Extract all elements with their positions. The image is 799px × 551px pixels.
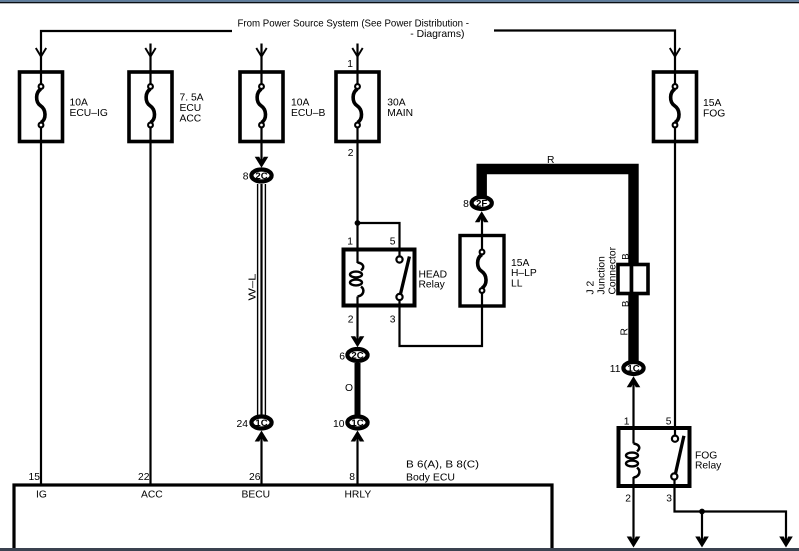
svg-text:8: 8 — [349, 472, 355, 483]
svg-text:From Power Source System (See: From Power Source System (See Power Dist… — [238, 19, 470, 30]
svg-text:Body ECU: Body ECU — [406, 473, 455, 484]
svg-text:5: 5 — [666, 416, 672, 427]
wire R thick from 2F to junction connector — [482, 169, 634, 266]
arrow out bottom branch — [695, 537, 709, 548]
label J 2 Junction Connector — [586, 246, 619, 294]
wire: 1C to body ECU pin 26 — [260, 435, 262, 487]
arrow up into 2F — [475, 211, 489, 222]
arrow up into 24-1C — [255, 431, 269, 442]
wire: F1 to body ECU pin 15 — [40, 142, 42, 487]
svg-text:1: 1 — [624, 416, 630, 427]
svg-text:10A: 10A — [291, 98, 309, 109]
fuse F2 7.5A ECU ACC — [129, 72, 172, 142]
svg-text:26: 26 — [249, 472, 261, 483]
svg-text:Connector: Connector — [608, 246, 619, 294]
wire: F3 to connector 2C — [260, 142, 262, 164]
svg-text:30A: 30A — [387, 98, 405, 109]
svg-text:J 2: J 2 — [586, 280, 597, 294]
svg-text:5: 5 — [390, 237, 396, 248]
svg-text:8: 8 — [243, 172, 249, 183]
arrowhead into fuse F4 — [352, 48, 362, 57]
connector 24 1C — [237, 417, 272, 431]
svg-text:B: B — [621, 253, 632, 259]
wire: feed arrow stem to ECU ACC fuse — [149, 44, 151, 73]
svg-text:B 6(A), B 8(C): B 6(A), B 8(C) — [406, 460, 479, 471]
svg-text:- Diagrams): - Diagrams) — [410, 29, 464, 40]
svg-text:3: 3 — [666, 494, 672, 505]
fuse F3 10A ECU-B — [240, 72, 283, 142]
svg-text:10A: 10A — [70, 98, 88, 109]
fuse F6 15A H-LP LL — [460, 236, 504, 307]
svg-text:Junction: Junction — [597, 256, 608, 295]
svg-text:24: 24 — [237, 419, 249, 430]
wire: H-LP fuse up to connector 2F — [481, 215, 483, 236]
coil of HEAD relay — [358, 263, 364, 271]
connector 11 1C — [610, 362, 644, 375]
svg-text:1C: 1C — [255, 418, 267, 429]
svg-text:O: O — [345, 383, 353, 394]
svg-text:2F: 2F — [476, 198, 487, 209]
body ECU B6(A) B8(C) — [14, 485, 552, 551]
svg-text:2: 2 — [348, 315, 354, 326]
svg-text:HRLY: HRLY — [345, 490, 372, 501]
arrow up into 11-1C — [627, 376, 641, 387]
svg-text:R: R — [547, 155, 554, 166]
svg-text:ACC: ACC — [180, 113, 202, 124]
connector 6 2C — [339, 349, 367, 363]
arrow up into 10-1C — [351, 431, 365, 442]
junction connector J2 — [618, 265, 648, 294]
svg-text:ECU–IG: ECU–IG — [70, 108, 108, 119]
svg-text:BECU: BECU — [242, 490, 271, 501]
fuse F1 10A ECU-IG — [20, 72, 63, 142]
svg-text:10: 10 — [333, 419, 345, 430]
arrowhead into fuse F5 — [670, 48, 680, 57]
svg-text:2: 2 — [625, 494, 631, 505]
wire: 1C to FOG relay pin 1 — [632, 380, 634, 443]
arrow out bottom right — [779, 537, 793, 548]
junction node — [355, 220, 361, 226]
svg-text:22: 22 — [138, 472, 150, 483]
svg-text:H–LP: H–LP — [511, 268, 537, 279]
wire: HEAD relay pin 3 to H-LP fuse — [400, 300, 483, 346]
svg-text:15A: 15A — [703, 98, 721, 109]
svg-text:MAIN: MAIN — [387, 108, 413, 119]
wire: feed to FOG fuse — [494, 31, 675, 73]
svg-text:15: 15 — [29, 472, 41, 483]
svg-text:2C: 2C — [351, 350, 363, 361]
connector 8 2C — [243, 170, 272, 183]
connector 10 1C — [333, 417, 368, 431]
wire: feed arrow stem to MAIN fuse — [356, 44, 358, 73]
FOG relay U2 — [619, 428, 690, 486]
arrow into connector 8-2C — [255, 157, 269, 168]
svg-text:1C: 1C — [351, 418, 363, 429]
wire: F4 to HEAD relay pin 1 — [356, 142, 358, 264]
wire pin5 inside relay — [674, 428, 676, 436]
connector 8 2F — [463, 197, 492, 210]
svg-text:1C: 1C — [627, 363, 639, 374]
switch of HEAD relay — [401, 257, 410, 294]
fuse F4 30A MAIN — [336, 72, 379, 142]
junction node on pin3 run — [699, 509, 705, 515]
wire: HEAD relay pin 2 down — [356, 297, 358, 344]
svg-text:Relay: Relay — [419, 280, 446, 291]
svg-text:W–L: W–L — [248, 273, 259, 300]
wire pin1 inside relay — [632, 428, 634, 444]
wire: F5 to FOG relay pin 5 — [674, 142, 676, 437]
arrowhead into fuse F2 — [145, 48, 155, 57]
wire: FOG relay pin 3 to fog lights — [675, 480, 787, 544]
svg-text:Relay: Relay — [695, 461, 722, 472]
svg-text:FOG: FOG — [703, 109, 725, 120]
wire: feed arrow stem to ECU-B fuse — [260, 44, 262, 73]
wire W-L shielded from 2C to 1C — [258, 184, 266, 416]
svg-text:FOG: FOG — [695, 450, 717, 461]
svg-text:1: 1 — [347, 59, 353, 70]
svg-text:3: 3 — [390, 315, 396, 326]
svg-text:2C: 2C — [255, 171, 267, 182]
wire: FOG relay pin 2 to ground arrow — [632, 477, 634, 544]
svg-text:15A: 15A — [511, 258, 529, 269]
svg-text:R: R — [620, 328, 631, 335]
wire: 1C to body ECU pin 8 — [356, 435, 358, 487]
wire: feed to ECU-IG fuse — [41, 31, 232, 72]
coil of FOG relay — [634, 444, 640, 452]
wire: F2 to body ECU pin 22 — [149, 142, 151, 487]
svg-text:6: 6 — [339, 352, 345, 363]
svg-text:ACC: ACC — [141, 490, 163, 501]
note: from power source system — [238, 19, 470, 41]
svg-text:LL: LL — [511, 279, 523, 290]
wire: branch down at 702 — [701, 512, 703, 544]
wire: branch to HEAD relay pin 5 — [358, 223, 400, 257]
arrowhead into fuse F1 — [36, 48, 46, 57]
HEAD relay U1 — [344, 250, 415, 306]
svg-text:11: 11 — [610, 364, 621, 375]
fuse F5 15A FOG — [654, 72, 697, 142]
svg-text:8: 8 — [463, 199, 469, 210]
svg-text:7. 5A: 7. 5A — [180, 93, 204, 104]
svg-text:ECU–B: ECU–B — [291, 108, 325, 119]
svg-text:1: 1 — [347, 237, 353, 248]
arrow into connector 6-2C — [351, 336, 365, 347]
wire R thick from junction connector to 1C — [628, 294, 638, 362]
arrow out bottom pin2 — [627, 537, 641, 548]
switch of FOG relay — [676, 436, 684, 473]
svg-text:IG: IG — [36, 490, 47, 501]
svg-text:2: 2 — [348, 148, 354, 159]
arrowhead into fuse F3 — [256, 48, 266, 57]
wire O thick from 2C to 1C — [355, 363, 361, 418]
